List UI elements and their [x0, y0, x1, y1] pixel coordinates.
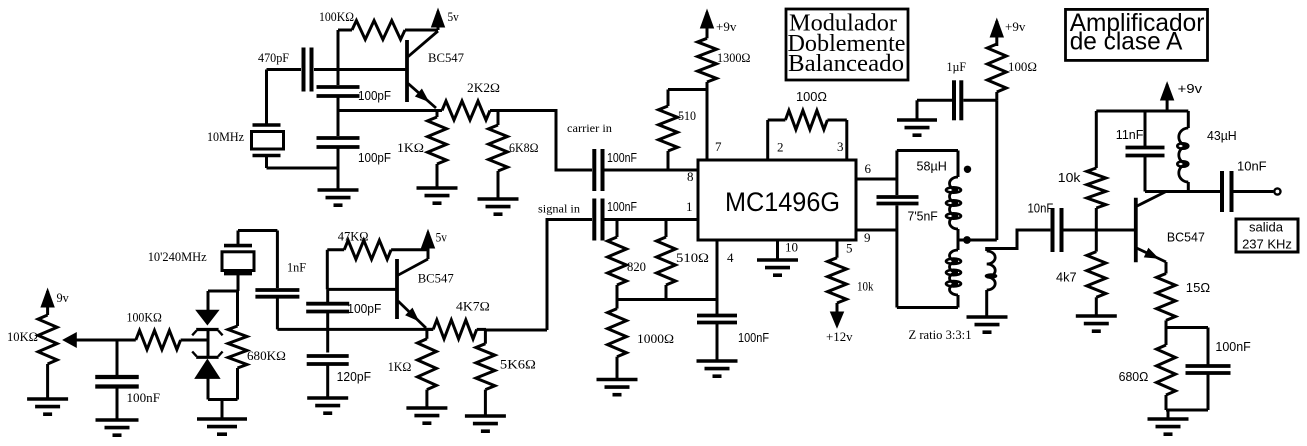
label carrier in	[567, 121, 612, 135]
label 100nF left	[127, 390, 161, 405]
label 4K7Ω	[456, 299, 490, 314]
ground (pot)	[27, 399, 68, 414]
svg-text:100nF: 100nF	[607, 200, 637, 214]
title box Modulador	[786, 9, 908, 80]
label 100pF upper	[358, 89, 391, 103]
phase dot primary	[964, 166, 971, 173]
label 47KΩ	[338, 229, 369, 244]
resistor 4K7Ω	[427, 320, 486, 339]
wire emitter junction	[1166, 326, 1208, 329]
capacitor 100nF (carrier)	[594, 149, 698, 191]
wire tank left rail	[895, 151, 898, 308]
svg-text:100nF: 100nF	[127, 390, 161, 405]
pin 4 wire	[716, 240, 719, 300]
wire amp base	[1096, 229, 1136, 232]
power +5v (osc1)	[432, 9, 445, 30]
label 820	[627, 259, 646, 274]
svg-text:10nF: 10nF	[1028, 202, 1054, 216]
pin 6 wire	[856, 178, 897, 181]
svg-text:120pF: 120pF	[337, 370, 372, 384]
svg-text:680KΩ: 680KΩ	[247, 348, 286, 363]
wire vfo output	[277, 328, 433, 331]
label BC547 Q1	[428, 50, 464, 65]
label 1KΩ osc2	[388, 359, 412, 374]
capacitor 1µF	[917, 80, 997, 120]
label +9v amp	[1178, 82, 1203, 96]
label pin 4	[727, 250, 734, 265]
label pin 6	[865, 161, 872, 176]
svg-text:8: 8	[687, 169, 694, 184]
capacitor 10nF (output)	[1222, 171, 1273, 212]
label 6K8Ω	[509, 140, 539, 155]
resistor 1KΩ (osc1 emitter)	[428, 111, 447, 189]
resistor 1000Ω	[608, 300, 627, 380]
ground (bias cap)	[96, 420, 139, 435]
label 100nF carrier	[607, 151, 637, 165]
capacitor 100nF (emitter bypass)	[1186, 328, 1231, 411]
svg-text:100Ω: 100Ω	[1008, 59, 1037, 74]
ground (6K8Ω)	[478, 199, 519, 214]
label pin 9	[864, 230, 871, 245]
label 10nF coupling	[1028, 202, 1054, 216]
label 10nF out	[1237, 160, 1267, 174]
label 680KΩ	[247, 348, 286, 363]
label 10KΩ	[7, 329, 38, 344]
title box Amplificador	[1066, 9, 1208, 60]
svg-text:10MHz: 10MHz	[207, 129, 244, 144]
pin 5 wire	[836, 240, 839, 258]
wire between varactors	[181, 330, 208, 358]
resistor 2K2Ω	[437, 101, 498, 120]
label MC1496G	[725, 187, 840, 217]
phase dot secondary	[985, 273, 998, 279]
label 100pF osc2	[347, 302, 381, 316]
svg-text:BC547: BC547	[1167, 231, 1205, 245]
power +5v (osc2)	[422, 230, 435, 250]
label 10k pin5	[857, 279, 874, 294]
svg-text:2K2Ω: 2K2Ω	[467, 80, 500, 95]
label 10k amp	[1058, 171, 1081, 185]
ground (varactor)	[197, 419, 247, 434]
inductor secondary	[987, 230, 1051, 317]
capacitor 120pF	[307, 356, 349, 364]
svg-text:1000Ω: 1000Ω	[637, 331, 674, 346]
wire amp top	[1096, 110, 1188, 113]
label 100Ω pins23	[796, 90, 827, 104]
svg-text:de clase A: de clase A	[1070, 28, 1183, 56]
capacitor 100nF (signal)	[594, 199, 698, 241]
label pin 3	[837, 139, 844, 154]
wire rail to emitter (osc1)	[338, 109, 437, 112]
label BC547 amp	[1167, 231, 1205, 245]
svg-text:4K7Ω: 4K7Ω	[456, 299, 490, 314]
resistor 4k7 (amp)	[1087, 230, 1106, 316]
label 11nF	[1116, 128, 1144, 142]
label 1µF	[947, 59, 967, 74]
svg-text:10KΩ: 10KΩ	[7, 329, 38, 344]
capacitor 10nF (coupling)	[1053, 208, 1097, 252]
resistor 820	[608, 220, 627, 300]
svg-text:470pF: 470pF	[258, 50, 289, 65]
wire tank feed rail	[995, 100, 998, 240]
pin 3 wire	[845, 120, 848, 160]
capacitor 100pF (osc1 upper)	[317, 87, 360, 96]
svg-text:100Ω: 100Ω	[796, 90, 827, 104]
svg-text:4k7: 4k7	[1056, 271, 1077, 285]
pin 2 wire	[766, 120, 769, 160]
label 100pF lower	[358, 151, 391, 165]
svg-text:1300Ω: 1300Ω	[717, 50, 751, 65]
label 510Ω	[676, 250, 709, 265]
label 120pF	[337, 370, 372, 384]
label 470pF	[258, 50, 289, 65]
ground (osc2 caps)	[307, 398, 348, 413]
resistor 680Ω	[1157, 328, 1176, 411]
capacitor 100pF (osc2)	[306, 304, 349, 312]
ground (osc2 1KΩ)	[406, 408, 447, 423]
output terminal	[1274, 188, 1280, 194]
capacitor 1nF	[255, 231, 299, 330]
svg-text:+9v: +9v	[1178, 82, 1203, 96]
ground (1µF)	[897, 120, 937, 135]
label 15Ω	[1186, 281, 1210, 295]
svg-text:100pF: 100pF	[358, 151, 391, 165]
wire center tap	[958, 229, 997, 250]
label pin 1	[686, 199, 693, 214]
label 100KΩ	[319, 9, 354, 24]
power +9v (amp)	[1161, 83, 1174, 112]
wire varactor bottom	[208, 378, 238, 419]
svg-text:1KΩ: 1KΩ	[388, 359, 412, 374]
label 680Ω	[1119, 370, 1149, 384]
svg-text:15Ω: 15Ω	[1186, 281, 1210, 295]
capacitor 100nF (bias filter)	[95, 340, 139, 420]
svg-text:1KΩ: 1KΩ	[397, 140, 424, 155]
power 9v (pot)	[41, 289, 54, 315]
resistor 100KΩ (osc1 base bias)	[338, 21, 438, 40]
ground (4k7)	[1076, 316, 1117, 331]
resistor 5K6Ω	[476, 329, 495, 416]
resistor 10k (pin 5)	[828, 258, 847, 313]
svg-text:10nF: 10nF	[1237, 160, 1267, 174]
resistor 510Ω	[657, 220, 676, 300]
svg-text:100KΩ: 100KΩ	[127, 310, 162, 325]
svg-text:6K8Ω: 6K8Ω	[509, 140, 539, 155]
label 510	[678, 108, 696, 123]
resistor 100Ω (pins 2-3)	[768, 111, 847, 130]
label 9v	[57, 290, 70, 305]
label 1KΩ osc1	[397, 140, 424, 155]
resistor 6K8Ω	[489, 111, 508, 200]
wire osc2 left rail	[327, 250, 397, 290]
svg-text:4: 4	[727, 250, 734, 265]
svg-text:1µF: 1µF	[947, 59, 967, 74]
svg-text:10k: 10k	[1058, 171, 1081, 185]
label 43µH	[1207, 129, 1237, 143]
svg-text:820: 820	[627, 259, 646, 274]
svg-text:58µH: 58µH	[917, 160, 947, 174]
svg-text:47KΩ: 47KΩ	[338, 229, 369, 244]
capacitor 100nF (pin 4)	[697, 300, 737, 362]
wire osc1 rail	[337, 30, 340, 190]
potentiometer 10KΩ	[38, 315, 117, 399]
label BC547 osc2	[418, 271, 454, 286]
svg-text:237 KHz: 237 KHz	[1242, 237, 1292, 252]
label +12v	[826, 329, 853, 344]
label 1300Ω	[717, 50, 751, 65]
pin 9 wire	[856, 229, 897, 232]
svg-text:3: 3	[837, 139, 844, 154]
svg-text:5K6Ω: 5K6Ω	[500, 357, 536, 372]
label 100nF signal	[607, 200, 637, 214]
resistor 47KΩ	[327, 240, 428, 259]
wire signal feed	[486, 220, 592, 331]
svg-text:carrier in: carrier in	[567, 121, 612, 135]
svg-text:10k: 10k	[857, 279, 874, 294]
label Z ratio	[909, 327, 972, 342]
wire crystal2 top	[238, 229, 277, 232]
label 100KΩ left	[127, 310, 162, 325]
capacitor 470pF	[267, 48, 408, 92]
svg-text:MC1496G: MC1496G	[725, 187, 840, 217]
label pin 7	[715, 139, 722, 154]
ground (amp emitter)	[1148, 419, 1189, 434]
wire tank bottom	[897, 306, 958, 309]
resistor 680KΩ	[228, 291, 247, 400]
svg-text:+9v: +9v	[716, 19, 737, 34]
diode D2 varactor	[192, 352, 222, 379]
transistor Q3 BC547 (amp)	[1136, 192, 1166, 263]
label 1nF	[287, 260, 306, 275]
resistor 100Ω (tank feed)	[987, 44, 1006, 100]
label 10'240MHz	[148, 249, 207, 264]
label 10MHz	[207, 129, 244, 144]
ground (1000Ω)	[597, 380, 638, 395]
label 1000Ω	[637, 331, 674, 346]
diode D1 varactor	[192, 310, 222, 335]
inductor 43µH	[1177, 111, 1188, 192]
label pin 10	[785, 240, 798, 255]
wire crystal to rail	[267, 167, 339, 170]
ground (osc1 rail)	[318, 190, 359, 205]
svg-text:Balanceado: Balanceado	[788, 51, 904, 77]
inductor 58µH primary upper	[946, 151, 961, 230]
svg-text:7'5nF: 7'5nF	[908, 210, 939, 224]
capacitor 7'5nF	[877, 197, 919, 204]
svg-text:+12v: +12v	[826, 329, 853, 344]
ground (osc1 1KΩ)	[417, 188, 458, 203]
svg-text:BC547: BC547	[418, 271, 454, 286]
svg-text:salida: salida	[1249, 220, 1284, 235]
label 100nF pin4	[738, 331, 769, 345]
pin 10 wire and ground	[757, 240, 798, 275]
svg-text:5v: 5v	[436, 230, 448, 245]
capacitor 11nF	[1126, 111, 1165, 192]
power +9v (tank)	[990, 19, 1003, 46]
label signal in	[538, 202, 580, 216]
wire bias junction	[617, 298, 717, 301]
wire varactor top	[208, 291, 238, 310]
label 100Ω tank	[1008, 59, 1037, 74]
svg-text:100KΩ: 100KΩ	[319, 9, 354, 24]
wire emitter bottom	[1166, 410, 1208, 419]
resistor 1KΩ (osc2)	[417, 329, 436, 408]
ground (secondary)	[967, 317, 1008, 332]
wire 1µF to ground	[916, 100, 919, 120]
resistor 15Ω	[1157, 262, 1176, 328]
power +12v arrow	[831, 303, 844, 328]
label +9v mid	[716, 19, 737, 34]
label 58µH	[917, 160, 947, 174]
transistor Q2 BC547 (osc2)	[397, 250, 428, 328]
label pin 2	[777, 140, 784, 155]
svg-text:BC547: BC547	[428, 50, 464, 65]
capacitor 100pF (osc1 lower)	[317, 138, 360, 147]
wire collector node	[1145, 190, 1221, 193]
svg-text:510: 510	[678, 108, 696, 123]
svg-text:11nF: 11nF	[1116, 128, 1144, 142]
crystal X2 10'240MHz	[222, 231, 254, 292]
junction dot center tap	[963, 236, 971, 244]
svg-text:9v: 9v	[57, 290, 70, 305]
svg-text:5: 5	[846, 241, 853, 256]
svg-text:1: 1	[686, 199, 693, 214]
svg-text:2: 2	[777, 140, 784, 155]
svg-text:100nF: 100nF	[1215, 340, 1251, 354]
svg-text:5v: 5v	[448, 9, 460, 24]
svg-text:6: 6	[865, 161, 872, 176]
power +9v (1300Ω)	[701, 10, 714, 32]
svg-text:Z ratio 3:3:1: Z ratio 3:3:1	[909, 327, 972, 342]
resistor 100KΩ (varactor bias)	[117, 331, 208, 350]
svg-text:100nF: 100nF	[738, 331, 769, 345]
resistor 1300Ω	[698, 29, 717, 90]
label 100nF amp	[1215, 340, 1251, 354]
crystal X1 10MHz	[252, 70, 284, 169]
label 5v osc2	[436, 230, 448, 245]
svg-text:43µH: 43µH	[1207, 129, 1237, 143]
label 7'5nF	[908, 210, 939, 224]
wire carrier feed	[498, 111, 592, 171]
pin 7 wire	[668, 90, 707, 161]
transistor Q1 BC547 (osc1)	[407, 31, 438, 108]
svg-text:100nF: 100nF	[607, 151, 637, 165]
svg-text:100pF: 100pF	[347, 302, 381, 316]
resistor 510 (pin8 pullup)	[659, 90, 678, 171]
wire osc2 cap rail	[326, 289, 329, 398]
svg-text:9: 9	[864, 230, 871, 245]
resistor 10k (amp)	[1087, 111, 1106, 230]
label pin 8	[687, 169, 694, 184]
svg-text:10: 10	[785, 240, 798, 255]
label 5v	[448, 9, 460, 24]
label 4k7	[1056, 271, 1077, 285]
ground (pin4 cap)	[697, 361, 738, 376]
svg-text:+9v: +9v	[1005, 19, 1026, 34]
inductor 58µH primary lower	[946, 250, 961, 308]
svg-text:1nF: 1nF	[287, 260, 306, 275]
svg-text:510Ω: 510Ω	[676, 250, 709, 265]
svg-text:680Ω: 680Ω	[1119, 370, 1149, 384]
svg-text:10'240MHz: 10'240MHz	[148, 249, 207, 264]
svg-text:100pF: 100pF	[358, 89, 391, 103]
ground (5K6Ω)	[465, 416, 506, 431]
label 5K6Ω	[500, 357, 536, 372]
wire tank top	[897, 149, 958, 152]
label +9v tank	[1005, 19, 1026, 34]
svg-text:7: 7	[715, 139, 722, 154]
output box salida	[1236, 219, 1298, 252]
svg-text:signal in: signal in	[538, 202, 580, 216]
label pin 5	[846, 241, 853, 256]
label 2K2Ω	[467, 80, 500, 95]
op-amp/IC U1 MC1496G box	[698, 160, 856, 240]
